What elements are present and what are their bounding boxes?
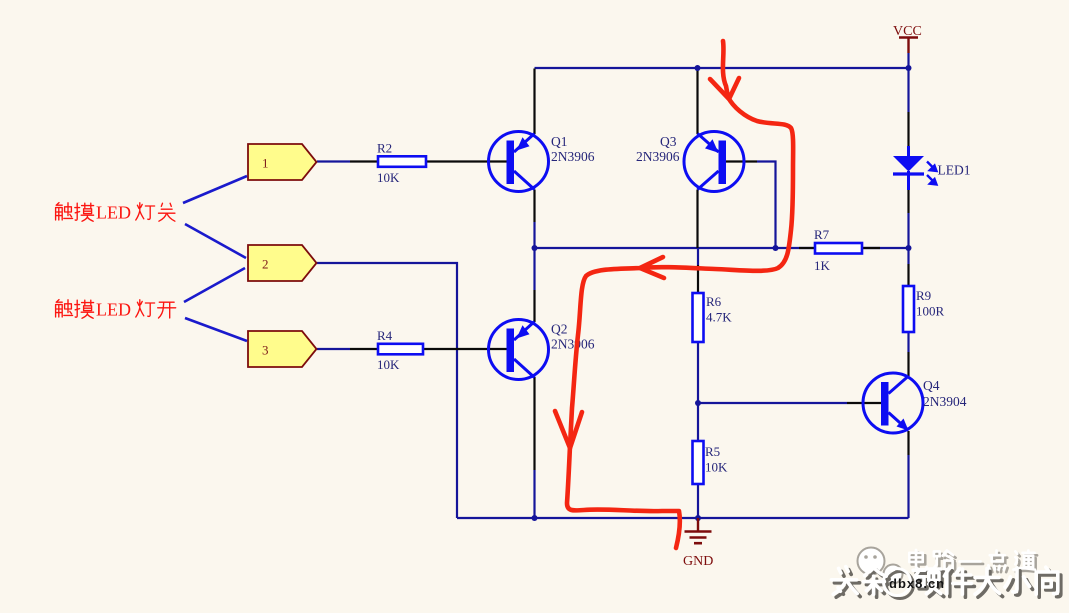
svg-text:2: 2 bbox=[262, 257, 269, 272]
svg-text:LED: LED bbox=[96, 203, 131, 223]
svg-text:R2: R2 bbox=[377, 141, 392, 156]
svg-text:Q1: Q1 bbox=[551, 134, 568, 149]
svg-text:10K: 10K bbox=[377, 170, 400, 185]
svg-text:dbx8.cn: dbx8.cn bbox=[889, 576, 945, 591]
svg-text:R5: R5 bbox=[705, 444, 720, 459]
svg-text:VCC: VCC bbox=[893, 24, 922, 39]
svg-text:2N3906: 2N3906 bbox=[551, 149, 595, 164]
svg-text:R7: R7 bbox=[814, 227, 830, 242]
svg-text:10K: 10K bbox=[377, 357, 400, 372]
svg-text:LED1: LED1 bbox=[938, 163, 971, 178]
svg-text:2N3904: 2N3904 bbox=[923, 394, 967, 409]
svg-text:1: 1 bbox=[262, 156, 269, 171]
svg-text:1K: 1K bbox=[814, 258, 831, 273]
svg-text:3: 3 bbox=[262, 343, 269, 358]
svg-text:2N3906: 2N3906 bbox=[551, 337, 595, 352]
svg-text:R4: R4 bbox=[377, 328, 393, 343]
svg-text:10K: 10K bbox=[705, 460, 728, 475]
svg-text:R6: R6 bbox=[706, 294, 722, 309]
svg-text:2N3906: 2N3906 bbox=[636, 149, 680, 164]
svg-text:4.7K: 4.7K bbox=[706, 310, 732, 325]
svg-text:100R: 100R bbox=[916, 304, 945, 319]
svg-text:GND: GND bbox=[683, 554, 713, 569]
svg-text:Q3: Q3 bbox=[660, 134, 677, 149]
svg-text:R9: R9 bbox=[916, 288, 931, 303]
svg-text:Q2: Q2 bbox=[551, 322, 568, 337]
svg-text:LED: LED bbox=[96, 300, 131, 320]
svg-text:Q4: Q4 bbox=[923, 378, 940, 393]
